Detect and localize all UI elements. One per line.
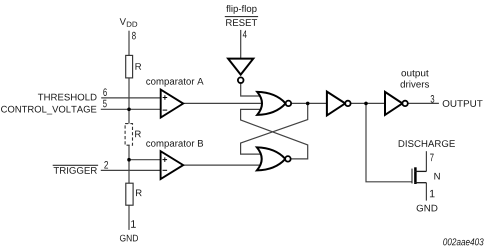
inverter U1 on RESET [228,59,253,83]
flip-flop label [226,5,256,14]
pin 1 (right) [430,190,435,197]
pin 4 [243,30,247,37]
wire NOR1 output cross-coupled to NOR2 input [241,103,308,154]
buffer U2 output driver 1 [327,92,351,116]
wire divider tap to comparator B + [129,159,162,161]
ground GND label (right) [417,205,438,212]
pin 2 [104,161,108,169]
wire source to GND pin 1 [425,183,427,201]
node junction divider tap [127,158,131,162]
node CONTROL_VOLTAGE label [1,106,96,115]
node TRIGGER label with overline [53,165,98,173]
node junction NOR1 output [306,102,310,106]
wire R1 to dashed resistor R2, crosses THRESHOLD [128,78,130,124]
node junction output driver [364,102,368,106]
pin 8 [132,32,136,40]
wire TRIGGER net to comparator B - [101,169,162,171]
pin 3 [431,95,435,103]
wire driver node to MOSFET gate [366,103,412,181]
power VDD label [120,18,138,27]
wire comparator A output through NOR1 to buffer1 [183,102,327,104]
watermark 002aae403 [443,238,483,245]
resistor R1 [126,55,141,78]
wire NOR2 output cross-coupled to NOR1 input [241,109,308,158]
node junction on CONTROL_VOLTAGE [127,108,131,112]
ground GND label (left) [120,235,138,242]
NOR gate 2 (latch) [257,147,291,170]
comparator B [146,140,203,179]
pin 5 [103,100,107,108]
wire VDD pin 8 to resistor R1 [128,31,130,56]
wire R3 to GND pin 1 [128,205,130,230]
wire inverter output to NOR1 input [241,83,263,96]
wire DISCHARGE pin 7 to drain [425,151,427,171]
wire CONTROL_VOLTAGE net to comparator A - [101,108,162,110]
comparator A [146,78,203,118]
node THRESHOLD label [38,94,97,101]
pin 6 [103,88,107,96]
wire buffer2 output to OUTPUT pin 3 [408,102,439,104]
transistor Q1 N-channel MOSFET (discharge) [412,167,440,184]
wire buffer1 output to buffer2 input [350,102,385,104]
node OUTPUT label [443,100,483,107]
pin 7 [430,154,434,161]
pin 1 (left) [131,220,136,227]
buffer U3 output driver 2 [385,70,429,115]
node DISCHARGE label [399,140,455,147]
wire THRESHOLD net to comparator A + [101,97,161,99]
resistor R3 [126,183,142,205]
node RESET label with overline [225,17,258,26]
wire R2 to resistor R3, crosses TRIGGER [128,145,130,183]
wire comparator B output to NOR2 input [183,164,263,166]
NOR gate 1 (latch) [257,92,291,115]
wire RESET pin 4 to inverter input [240,30,242,59]
resistor R2 (dashed) [125,124,141,146]
